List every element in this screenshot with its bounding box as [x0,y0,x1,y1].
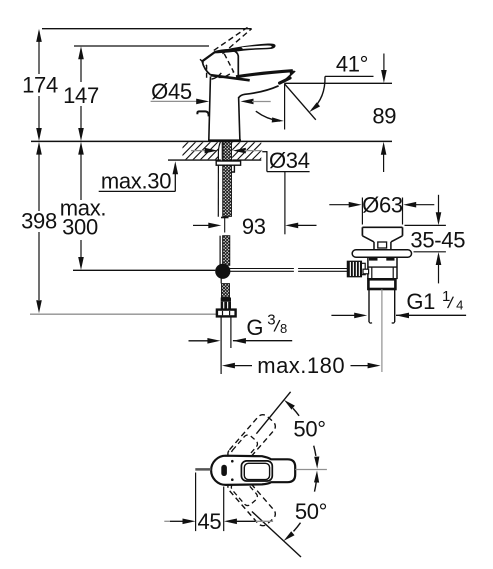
svg-text:max.30: max.30 [101,168,171,193]
svg-text:Ø63: Ø63 [362,193,403,218]
svg-text:41°: 41° [336,52,368,77]
svg-text:G: G [246,315,263,340]
svg-text:Ø34: Ø34 [269,148,310,173]
svg-text:89: 89 [372,103,396,128]
svg-text:4: 4 [456,298,463,313]
svg-text:50°: 50° [295,499,327,524]
svg-text:50°: 50° [293,417,325,442]
svg-text:93: 93 [242,214,266,239]
svg-text:45: 45 [197,509,221,534]
svg-text:Ø45: Ø45 [151,79,192,104]
svg-text:8: 8 [280,321,287,336]
svg-text:398: 398 [21,209,57,234]
svg-text:147: 147 [63,83,99,108]
svg-text:G1: G1 [406,289,435,314]
svg-text:35-45: 35-45 [410,227,465,252]
svg-text:300: 300 [62,215,98,240]
svg-text:174: 174 [22,73,58,98]
svg-text:max.180: max.180 [257,353,345,378]
